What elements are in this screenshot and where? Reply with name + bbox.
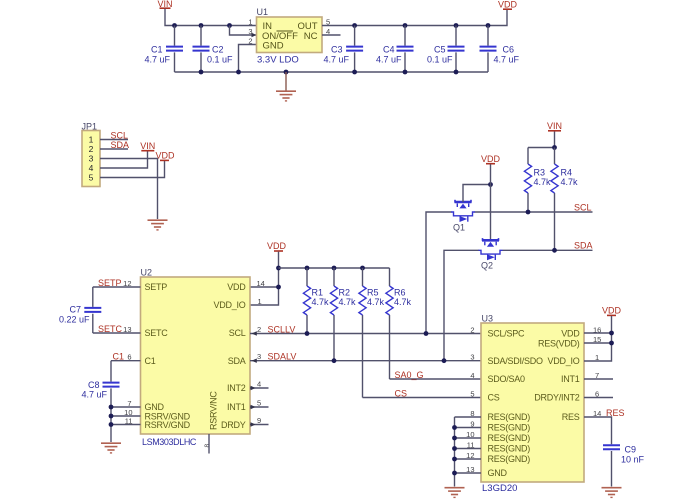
capacitor C9	[603, 445, 645, 465]
transistor Q2	[479, 238, 503, 271]
svg-text:JP1: JP1	[82, 121, 98, 131]
wire R2 leads	[333, 268, 335, 361]
supply VIN (pull-ups)	[547, 121, 562, 131]
pin arrow U2 pin 4	[251, 386, 256, 390]
wire Q2 source to SDALV	[444, 250, 479, 360]
capacitor C6	[480, 45, 520, 65]
connector JP1 box	[82, 131, 100, 187]
svg-text:VIN: VIN	[140, 141, 155, 151]
transistor Q1	[451, 200, 475, 233]
svg-text:L3GD20: L3GD20	[482, 483, 517, 494]
node junction C5/bottom rail	[454, 70, 459, 75]
svg-text:INT1: INT1	[561, 374, 580, 384]
supply VDD (level shifters)	[481, 154, 501, 164]
svg-text:SETP: SETP	[145, 282, 168, 292]
wire C1 leads	[174, 26, 176, 73]
svg-text:RES(GND): RES(GND)	[488, 444, 531, 454]
svg-text:C4: C4	[383, 45, 395, 55]
wire ground stem below U1	[285, 72, 287, 91]
ground symbol (JP1)	[148, 220, 168, 230]
svg-text:CS: CS	[395, 389, 408, 399]
node junction C3/out rail	[352, 23, 357, 28]
wire net SETC	[93, 332, 141, 334]
svg-text:4.7k: 4.7k	[367, 297, 385, 307]
wire U3 RES(GND) pin 10	[455, 437, 482, 439]
svg-text:4: 4	[257, 380, 261, 389]
svg-text:VDD: VDD	[155, 151, 175, 161]
svg-text:C5: C5	[434, 45, 446, 55]
svg-text:R3: R3	[534, 167, 546, 177]
svg-text:SCL: SCL	[229, 328, 246, 338]
svg-text:5: 5	[470, 389, 474, 398]
wire U2 GND pin 7	[111, 406, 141, 408]
svg-text:9: 9	[257, 416, 261, 425]
svg-text:2: 2	[248, 36, 252, 45]
svg-text:VDD: VDD	[227, 282, 246, 292]
resistor R5	[359, 286, 385, 315]
wire C4 leads	[404, 26, 406, 73]
svg-text:0.22 uF: 0.22 uF	[59, 314, 90, 324]
svg-text:C3: C3	[331, 45, 343, 55]
node junction C8/pin10	[109, 414, 114, 419]
capacitor C3	[323, 45, 363, 65]
wire U3 DRDY/INT2 stub	[584, 397, 613, 399]
svg-text:R4: R4	[561, 167, 573, 177]
node junction bus/pin10	[452, 436, 457, 441]
capacitor C1	[144, 45, 183, 65]
node junction R3/SCL	[526, 210, 531, 215]
supply VIN (JP1)	[140, 141, 155, 151]
svg-text:10 nF: 10 nF	[621, 454, 645, 464]
wire C2 leads	[200, 26, 202, 73]
wire U2 pin 14	[250, 286, 279, 288]
wire U3 RES(GND) pin 12	[455, 458, 482, 460]
wire net SA0_G	[390, 378, 482, 380]
node junction ground stem/bottom rail	[284, 70, 289, 75]
svg-text:U2: U2	[141, 268, 153, 278]
svg-text:RES(VDD): RES(VDD)	[538, 338, 580, 348]
svg-text:RSRV/GND: RSRV/GND	[145, 420, 191, 430]
node junction bus/pin9	[452, 425, 457, 430]
ground symbol (C9)	[602, 488, 622, 498]
wire U1 NC stub	[322, 34, 341, 36]
node junction ON-OFF branch/top rail	[227, 23, 232, 28]
svg-text:SCL: SCL	[574, 202, 592, 212]
capacitor C8	[81, 380, 119, 399]
svg-text:C7: C7	[69, 305, 81, 315]
svg-text:C9: C9	[625, 445, 637, 455]
svg-text:1: 1	[89, 135, 94, 145]
resistor R3	[524, 164, 551, 193]
ground symbol (top section)	[276, 91, 296, 101]
node junction bus/pin12	[452, 457, 457, 462]
svg-text:3.3V LDO: 3.3V LDO	[257, 54, 299, 65]
wire U2 pin 8 stub (bottom)	[208, 434, 210, 454]
ground symbol (U2)	[101, 443, 121, 453]
node junction C8/pin11	[109, 422, 114, 427]
supply VDD (U2)	[267, 241, 287, 251]
node junction C1/top rail	[172, 23, 177, 28]
svg-text:SDA: SDA	[111, 140, 130, 150]
wire net C1 (cap pin)	[111, 360, 141, 362]
node junction VDD/pin15	[609, 341, 614, 346]
pin arrow U2 pin 2	[252, 331, 257, 335]
svg-text:SCL: SCL	[111, 130, 129, 140]
svg-text:3: 3	[89, 154, 94, 164]
wire JP1 pin 2 (net SDA stub)	[100, 148, 128, 150]
svg-text:SDA: SDA	[228, 356, 246, 366]
wire VIN stem to R3/R4	[528, 132, 555, 148]
svg-text:2: 2	[89, 144, 94, 154]
wire C6 leads	[487, 26, 489, 73]
wire U3 RES pin 14 to C9	[584, 417, 612, 444]
svg-text:VDD: VDD	[267, 241, 287, 251]
svg-text:4.7k: 4.7k	[339, 297, 357, 307]
wire JP1 pin 1 (net SCL stub)	[100, 139, 128, 141]
node junction VIN/R3/R4	[552, 145, 557, 150]
node junction C2/bottom rail	[199, 70, 204, 75]
svg-text:SETC: SETC	[145, 328, 169, 338]
svg-text:5: 5	[89, 173, 94, 183]
svg-text:SDALV: SDALV	[268, 352, 297, 362]
svg-text:VDD: VDD	[498, 0, 518, 10]
node junction VDD stem/pin14	[276, 285, 281, 290]
pin arrow U2 pin 5	[251, 405, 256, 409]
node junction U1 GND/bottom rail	[236, 70, 241, 75]
node junction Q1 gate/VDD stem	[488, 182, 493, 187]
node junction Q2 branch/SDALV	[442, 358, 447, 363]
resistor R4	[551, 164, 578, 193]
capacitor C7	[59, 305, 101, 325]
svg-text:RES: RES	[606, 408, 625, 418]
svg-text:SDO/SA0: SDO/SA0	[488, 374, 526, 384]
svg-text:DRDY: DRDY	[221, 420, 246, 430]
regulator U1 box	[257, 17, 323, 53]
wire C3 leads	[354, 26, 356, 73]
wire U3 INT1 stub	[584, 378, 613, 380]
wire net SCLLV	[250, 333, 481, 335]
svg-text:3: 3	[248, 27, 252, 36]
svg-text:0.1 uF: 0.1 uF	[207, 54, 233, 64]
wire ground bus (U3 left)	[454, 417, 456, 487]
capacitor C4	[376, 45, 414, 65]
svg-text:RES(GND): RES(GND)	[488, 454, 531, 464]
supply VDD (U3)	[602, 306, 622, 316]
svg-text:2: 2	[257, 325, 261, 334]
svg-text:RES: RES	[562, 412, 580, 422]
svg-text:RSRV/NC: RSRV/NC	[209, 391, 219, 430]
svg-text:SETC: SETC	[98, 324, 123, 334]
svg-text:4.7k: 4.7k	[534, 177, 552, 187]
svg-text:SA0_G: SA0_G	[395, 370, 424, 380]
node junction R5/rail	[360, 266, 365, 271]
wire U3 RES(GND) pin 11	[455, 448, 482, 450]
supply VIN (top left)	[157, 0, 172, 9]
wire R4 leads	[554, 148, 556, 251]
svg-text:1: 1	[258, 297, 262, 306]
wire U3 RES(GND) pin 8	[455, 416, 482, 418]
wire ON/OFF branch to U1 pin 3	[230, 26, 257, 36]
svg-text:4.7 uF: 4.7 uF	[81, 389, 107, 399]
svg-text:CS: CS	[488, 393, 500, 403]
wire C7 leads	[92, 287, 94, 333]
wire C8 leads	[110, 361, 112, 442]
pin arrow U1 pin 3	[252, 33, 257, 37]
supply VDD (JP1)	[155, 151, 175, 161]
node junction VDD stem/resistor rail	[276, 266, 281, 271]
svg-text:SCLLV: SCLLV	[268, 325, 296, 335]
svg-text:SCL/SPC: SCL/SPC	[488, 329, 526, 339]
svg-text:GND: GND	[263, 40, 284, 51]
svg-text:4.7k: 4.7k	[312, 297, 330, 307]
wire U1 OUT to VDD (top right rail)	[322, 10, 507, 26]
node junction R2/rail	[332, 266, 337, 271]
wire net SCL (Q1 drain to label)	[475, 211, 593, 213]
node junction bus/pin11	[452, 446, 457, 451]
svg-text:4.7 uF: 4.7 uF	[376, 54, 402, 64]
node junction C2/top rail	[199, 23, 204, 28]
wire U2 INT1 stub	[250, 406, 269, 408]
wire net SDA (Q2 drain to label)	[503, 249, 593, 251]
svg-text:Q1: Q1	[453, 222, 465, 232]
node junction C6/out rail	[486, 23, 491, 28]
svg-text:C1: C1	[151, 45, 163, 55]
svg-text:8: 8	[204, 444, 211, 448]
wire VIN to U1 IN pin (top rail)	[165, 9, 257, 26]
resistor R1	[303, 286, 329, 315]
wire Q1 gate to VDD stem	[463, 185, 491, 203]
wire R6 leads	[389, 268, 391, 379]
node junction VDD/pin16	[609, 331, 614, 336]
svg-text:Q2: Q2	[481, 261, 493, 271]
wire C9 to ground	[611, 451, 613, 487]
wire R3 leads	[527, 148, 529, 213]
wire resistor rail	[279, 267, 390, 269]
wire C5 leads	[455, 26, 457, 73]
svg-text:SDA/SDI/SDO: SDA/SDI/SDO	[488, 356, 544, 366]
wire U1 GND pin 2 down to bottom rail	[239, 45, 257, 73]
wire VDD stem to U2 pins 14/1	[250, 252, 279, 305]
wire U3 pin 16	[584, 332, 612, 334]
node junction C3/bottom rail	[352, 70, 357, 75]
svg-text:4.7k: 4.7k	[561, 177, 579, 187]
svg-text:14: 14	[257, 279, 265, 288]
wire VDD stem to Q2 gate	[490, 164, 492, 240]
svg-text:4: 4	[89, 163, 94, 173]
node junction bus/pin13	[452, 471, 457, 476]
svg-text:VIN: VIN	[547, 121, 562, 131]
svg-text:RES(GND): RES(GND)	[488, 412, 531, 422]
node junction C4/bottom rail	[403, 70, 408, 75]
svg-text:U3: U3	[482, 314, 494, 324]
svg-text:SDA: SDA	[574, 241, 593, 251]
svg-text:C1: C1	[145, 356, 156, 366]
node junction R1/SCLLV	[305, 331, 310, 336]
svg-text:VDD: VDD	[602, 306, 622, 316]
IC U3 box	[481, 323, 584, 482]
wire bottom ground rail	[175, 71, 489, 73]
capacitor C2	[193, 45, 234, 65]
svg-text:RES(GND): RES(GND)	[488, 423, 531, 433]
wire U3 pin 15	[584, 342, 612, 344]
IC U2 box	[141, 277, 251, 434]
wire U2 INT2 stub	[250, 387, 269, 389]
svg-text:VDD: VDD	[561, 329, 580, 339]
svg-text:RES(GND): RES(GND)	[488, 433, 531, 443]
node junction C5/out rail	[454, 23, 459, 28]
wire R1 leads	[306, 268, 308, 334]
U1 pin name ON/OFF with overbar	[262, 31, 298, 42]
svg-text:R1: R1	[312, 287, 324, 297]
node junction C8/pin7	[109, 405, 114, 410]
wire U2 pin 10	[111, 415, 141, 417]
node junction R2/SDALV	[332, 358, 337, 363]
wire U3 RES(GND) pin 9	[455, 427, 482, 429]
svg-text:VDD_IO: VDD_IO	[547, 356, 579, 366]
svg-text:0.1 uF: 0.1 uF	[427, 54, 453, 64]
svg-text:R6: R6	[394, 287, 406, 297]
svg-text:INT1: INT1	[227, 402, 246, 412]
svg-text:1: 1	[248, 17, 252, 26]
node junction C4/out rail	[403, 23, 408, 28]
svg-text:GND: GND	[488, 468, 508, 478]
pin arrow U2 pin 3	[252, 359, 257, 363]
svg-text:4.7 uF: 4.7 uF	[494, 54, 520, 64]
svg-text:SETP: SETP	[98, 278, 122, 288]
svg-text:R2: R2	[339, 287, 351, 297]
pin arrow U2 pin 9	[251, 422, 256, 426]
resistor R2	[330, 286, 356, 315]
svg-text:5: 5	[257, 399, 261, 408]
wire net SDALV	[250, 360, 481, 362]
svg-text:2: 2	[470, 325, 474, 334]
node junction R1/rail	[305, 266, 310, 271]
wire JP1 pin 5 to VDD	[100, 161, 165, 178]
wire Q1 source to SCLLV	[426, 212, 452, 334]
svg-text:NC: NC	[304, 31, 318, 42]
wire U2 DRDY stub	[250, 424, 269, 426]
node junction R4/SDA	[552, 248, 557, 253]
svg-text:DRDY/INT2: DRDY/INT2	[534, 393, 579, 403]
svg-text:4.7k: 4.7k	[394, 297, 412, 307]
wire JP1 pin 3 to ground	[100, 159, 158, 220]
capacitor C5	[427, 45, 465, 65]
wire U2 pin 11	[111, 424, 141, 426]
svg-text:4.7 uF: 4.7 uF	[323, 54, 349, 64]
wire net CS	[363, 397, 482, 399]
svg-text:LSM303DLHC: LSM303DLHC	[142, 437, 197, 447]
svg-text:U1: U1	[257, 7, 269, 17]
svg-text:3: 3	[470, 353, 474, 362]
wire JP1 pin 4 to VIN	[100, 151, 148, 168]
resistor R6	[386, 286, 412, 315]
supply VDD (top right)	[498, 0, 518, 10]
wire net SETP	[93, 286, 141, 288]
wire R5 leads	[362, 268, 364, 398]
svg-text:INT2: INT2	[227, 383, 246, 393]
svg-text:3: 3	[257, 352, 261, 361]
wire VDD stem to U3 pins 16/15/1	[584, 316, 612, 361]
wire U3 GND pin 13	[455, 472, 482, 474]
svg-text:VDD_IO: VDD_IO	[213, 300, 245, 310]
svg-text:C2: C2	[212, 45, 224, 55]
svg-text:VDD: VDD	[481, 154, 501, 164]
svg-text:4: 4	[470, 371, 474, 380]
node junction Q1 branch/SCLLV	[424, 331, 429, 336]
svg-text:C6: C6	[503, 45, 515, 55]
ground symbol (U3 bus)	[445, 488, 465, 498]
svg-text:R5: R5	[367, 287, 379, 297]
svg-text:C1: C1	[113, 352, 125, 362]
svg-text:4.7 uF: 4.7 uF	[144, 54, 170, 64]
